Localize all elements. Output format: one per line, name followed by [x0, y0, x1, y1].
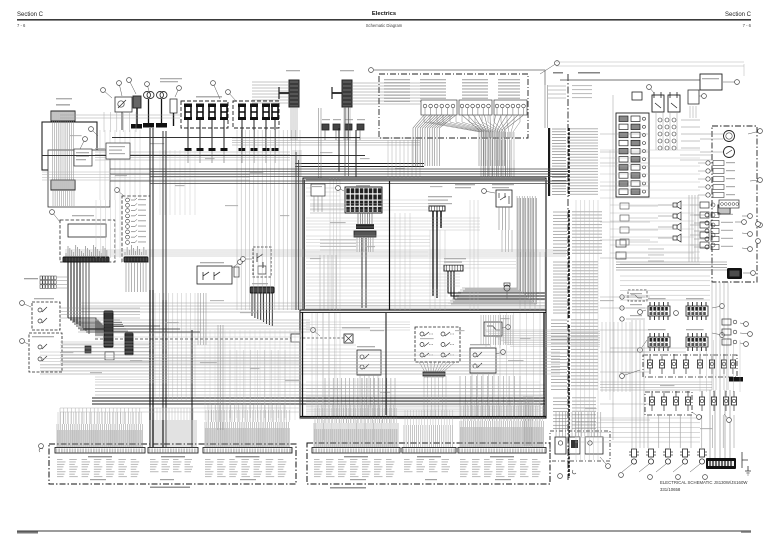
callout balloon RB3 — [699, 95, 704, 97]
callout RGx2 — [740, 333, 750, 334]
small components right mid — [616, 240, 626, 247]
callout balloon aux switch — [496, 352, 503, 354]
extra texture left mid column — [96, 200, 120, 258]
key code switch label — [444, 258, 466, 259]
callout balloon 8 — [228, 92, 236, 101]
thick feed bundle bottom — [92, 398, 545, 404]
tow socket box console top-left — [311, 184, 325, 196]
fuse FB2 row 2 — [619, 124, 628, 130]
hour meter gauge — [724, 131, 735, 142]
wires from horn comb down — [252, 293, 272, 326]
top right link wires — [556, 62, 744, 66]
callout balloon legend — [540, 63, 557, 74]
leader line PT2 — [639, 464, 649, 472]
fuse matrix drop dark pair — [362, 238, 366, 308]
staircase comb 2 — [125, 333, 133, 355]
wire fuse FL7 down — [265, 120, 267, 148]
right column vertical band — [689, 195, 698, 262]
tick fringe extension harness1 — [58, 412, 141, 424]
wires into lamp cluster — [556, 412, 601, 437]
pill connector on dashed link — [291, 334, 300, 342]
solenoid valve SV1 — [649, 354, 651, 360]
flasher unit box — [74, 149, 92, 166]
instrument housing box — [48, 150, 110, 207]
horn speaker H4 — [677, 234, 681, 242]
harness box 2 sublabels — [350, 479, 366, 480]
isolator switch X — [344, 334, 353, 343]
solenoid valve SW5 — [701, 391, 703, 397]
pill connector row right — [719, 200, 739, 208]
right column fill rows y250-266 — [620, 251, 700, 253]
junction box top right — [700, 74, 722, 90]
leader line PT1 — [622, 464, 632, 472]
lamp cluster dashed box — [550, 431, 610, 461]
wire fan from switch groups — [424, 115, 480, 132]
svg-text:Electrics: Electrics — [372, 11, 396, 17]
label column bus segments — [568, 128, 570, 478]
fuse FB2 row 3 — [619, 132, 628, 138]
key code switch comb — [444, 265, 463, 271]
wire fuse FL2 down — [199, 120, 201, 148]
relay group RG4 — [686, 337, 708, 347]
horn speaker H2 — [677, 212, 681, 220]
vertical bundle right x712-728 — [712, 282, 728, 390]
fuse link FL3 — [208, 104, 216, 108]
isolator black drop extension — [433, 228, 437, 298]
verticals along divider gap — [576, 200, 598, 460]
indicator lamp L2 — [706, 169, 710, 173]
membrane interior verticals — [312, 313, 340, 418]
sender unit S2 — [700, 212, 709, 218]
legend fan bundle B — [462, 115, 524, 166]
solenoid valve SW1 — [651, 391, 653, 397]
relay module dashed — [253, 247, 271, 277]
harness box 2 caption — [330, 487, 366, 489]
callout balloon top run — [369, 68, 374, 73]
horn connector comb — [252, 283, 268, 284]
aux changeover switch box — [470, 348, 496, 373]
gauge lamp G5 — [126, 219, 130, 223]
tick bundle above CS1 — [57, 424, 143, 447]
wire fuse FL3 down — [211, 120, 213, 148]
pressure transducer PT2 — [646, 452, 656, 455]
gray texture left of console — [205, 330, 300, 420]
wires into junction block — [57, 277, 68, 288]
wire bundle alt drop — [502, 230, 512, 252]
bulkhead connector C31 — [340, 70, 354, 71]
callout balloon 7 — [213, 83, 220, 99]
right rows horizontals y150-200 — [600, 149, 700, 151]
horn speaker H3 — [677, 223, 681, 231]
membrane interior verticals sparse — [316, 313, 336, 416]
wire drop x545 top — [544, 70, 546, 128]
callout RGx1 — [740, 323, 746, 324]
wire bundles mid height dense — [60, 355, 300, 363]
sender unit S5 — [700, 242, 709, 248]
wire bundle below housing — [53, 190, 74, 206]
buzzer — [504, 285, 510, 291]
dark band above console — [110, 168, 568, 170]
harness box 1 wire list — [57, 458, 63, 461]
stub bar C30 — [279, 92, 289, 94]
solenoid valve SV7 — [723, 354, 725, 360]
component rows x625 — [620, 295, 624, 299]
wire bundle gauge drop — [126, 262, 146, 292]
svg-text:ELECTRICAL SCHEMATIC JS130W/JS: ELECTRICAL SCHEMATIC JS130W/JS160W — [660, 480, 748, 485]
svg-text:Section C: Section C — [725, 12, 752, 18]
callout balloon harness1 — [39, 448, 43, 452]
right rows horizontals y200-260 long — [610, 204, 694, 206]
wire fuse FL4 down — [223, 120, 225, 148]
membrane bottom gather — [306, 396, 544, 414]
leader line PT4 — [673, 464, 683, 472]
callout right edge E — [742, 248, 750, 249]
wire verticals from fuse panel region — [237, 130, 300, 310]
wire label rows lower — [551, 319, 567, 321]
long wires label column to right components — [600, 133, 650, 135]
worklamp switch dashed box — [32, 302, 60, 330]
tick bundle above CS6 — [460, 421, 544, 447]
lamp pill L3 — [585, 437, 603, 454]
right column relay drops — [656, 112, 677, 150]
bulkhead connector C30 — [286, 70, 300, 71]
wire bundle C30 down — [291, 107, 297, 140]
fuse FB2 row 7 — [619, 165, 628, 171]
stub bar C31 — [332, 92, 342, 94]
vertical bundle x218 — [218, 325, 223, 430]
leader line PT5 — [690, 464, 700, 472]
callout balloon RG3 — [640, 340, 647, 350]
console interior wire texture — [310, 200, 430, 210]
component RB3 — [688, 90, 699, 104]
alternator relay pins down — [499, 207, 509, 230]
staircase comb 1 — [104, 311, 113, 347]
gray wide bus at x525 — [524, 396, 532, 446]
legend fan extension — [482, 132, 513, 138]
indicator lamp L3 — [706, 177, 710, 181]
harness box 1 sublabels — [90, 479, 106, 480]
gauge lamp G2 — [126, 203, 130, 207]
key code switch bundle — [448, 271, 545, 299]
cab mainframe split line — [567, 74, 569, 480]
wires from pin grid — [681, 120, 700, 148]
tow switch drops — [360, 375, 378, 416]
wire top run — [374, 70, 545, 85]
membrane panel label — [342, 327, 370, 328]
switch matrix dashed box — [415, 327, 460, 362]
callout balloon lamp cluster 2 — [558, 474, 563, 479]
callout balloon relay module — [243, 258, 252, 260]
tick fringe extension harness2 — [315, 408, 397, 423]
right column verticals above terminal — [700, 340, 740, 392]
footer issue number — [741, 531, 751, 533]
thick feed wires top-center — [295, 163, 424, 165]
fuse link FL2 — [196, 104, 204, 108]
alternator relay box — [496, 190, 512, 207]
gauge lamp G9 — [126, 241, 130, 245]
fuse FB2 row 8 — [619, 173, 628, 179]
diode pack D2 — [333, 124, 340, 130]
gauge lamp G1 — [126, 198, 130, 202]
relay group RG1 — [648, 306, 670, 316]
fuse FB2 row 6 — [619, 157, 628, 163]
top-left risers to bus — [104, 112, 136, 132]
membrane panel box — [300, 310, 546, 418]
left bundle turn right heavy — [80, 326, 200, 332]
callout balloon RB — [649, 87, 654, 93]
staircase fan 2 — [113, 320, 128, 331]
gauge lamp G8 — [126, 235, 130, 239]
capacitor component — [234, 267, 239, 277]
diode pack D4 — [357, 124, 364, 130]
tick bundle above CS5 — [404, 425, 452, 447]
label fuse panel — [196, 96, 222, 98]
valve block VB1 dash-dot box — [643, 355, 737, 377]
callout balloon PT row 4 — [703, 475, 708, 480]
right column horizontals y262-300 — [620, 276, 710, 300]
long bus left-center B — [40, 352, 560, 374]
security relay box — [197, 266, 232, 284]
fan connector under matrix — [419, 362, 455, 378]
gray verticals legend bundle lower — [481, 315, 513, 345]
vertical bundle right x602-630 — [602, 322, 630, 392]
console box — [303, 178, 546, 310]
tick risers tall CS1 — [60, 408, 140, 424]
label MAINFRAME — [578, 72, 600, 74]
indicator lamp L4 — [706, 185, 710, 189]
thermostat label — [455, 184, 475, 185]
nested corner bundle darker — [451, 198, 536, 304]
callout valve right1 — [692, 412, 699, 417]
solenoid valve SW6 — [713, 391, 715, 397]
header rule — [17, 19, 751, 21]
callout balloon 2 — [103, 90, 112, 98]
label above connector C20 — [56, 98, 72, 99]
callout balloon RG4 — [712, 333, 722, 335]
dark component left — [85, 346, 91, 353]
switch group SG2 — [459, 100, 492, 115]
bulb holder B2 — [157, 92, 164, 99]
terminal strip black block — [706, 458, 736, 469]
wire fuse FL8 down — [274, 120, 276, 148]
matrix connector drops — [424, 376, 446, 416]
alternator relay label — [492, 184, 514, 185]
monitor module dashed box — [60, 220, 115, 262]
black mini terminal — [729, 377, 743, 382]
wire fuse FL5 down — [241, 120, 243, 148]
diode pack right dashed — [628, 290, 647, 301]
solenoid valve SV8 — [732, 354, 734, 360]
tow lamp switch box — [357, 350, 381, 375]
callout valve left — [622, 370, 640, 376]
black vertical x339 — [338, 128, 340, 172]
gauge lamp G7 — [126, 230, 130, 234]
callout right edge A — [742, 215, 750, 217]
membrane interior extra wires — [306, 382, 540, 392]
pin grid connector — [658, 118, 662, 122]
fuse board FB2 outline — [616, 113, 649, 197]
bundle hugging console left edge — [293, 150, 301, 310]
tow socket pins — [314, 196, 322, 212]
legend bundle turn right — [483, 330, 600, 346]
label column bus bar — [548, 128, 550, 196]
harness box 2 wire list — [314, 458, 320, 461]
long cross wires upper mid — [60, 115, 180, 118]
wire bundle C20 down — [53, 121, 74, 180]
callout balloon key matrix — [338, 188, 344, 191]
harness box 1 dash-dot border — [49, 444, 296, 484]
connector strip CS3 — [203, 448, 292, 454]
solenoid valve SW8 — [733, 391, 735, 397]
console inner wires — [310, 205, 345, 213]
callout balloon 4 — [129, 80, 136, 94]
wires fuse matrix down — [358, 213, 372, 224]
callout balloon dark relay — [743, 272, 753, 274]
vertical bundle x192 — [191, 330, 193, 447]
black riser pair x163 full height — [163, 131, 166, 300]
callout right edge C — [742, 233, 750, 234]
fuse panel FP1 dashed box — [181, 101, 228, 128]
right column boundary vertical — [612, 95, 614, 440]
membrane center black drop — [385, 313, 387, 415]
black riser pair x150 full height — [150, 128, 153, 290]
mini component column right-mid — [722, 319, 731, 325]
connector C31 fill dark — [343, 81, 352, 107]
callout G mid — [674, 311, 679, 316]
callout balloon worklamp — [22, 303, 31, 307]
membrane switch row2 col1 — [420, 343, 424, 347]
wires from switch boxes — [60, 308, 140, 318]
aux switch drops — [472, 372, 494, 416]
callout balloon trailer relay — [502, 327, 508, 328]
svg-text:Schematic Diagram: Schematic Diagram — [366, 23, 403, 28]
legend drop emphasis — [484, 140, 510, 176]
monitor connector bar — [63, 257, 109, 262]
callout balloon RG1 — [640, 310, 646, 312]
connector strip CS5 — [402, 448, 456, 454]
membrane switch row1 col1 — [420, 332, 424, 336]
callout balloon alternator relay — [484, 191, 495, 193]
indicator lamp L5 — [706, 193, 710, 197]
solenoid valve SV2 — [661, 354, 663, 360]
solenoid valve SW7 — [725, 391, 727, 397]
console hugging dark pair — [296, 152, 299, 310]
wire bundle into terminal strip — [710, 390, 730, 458]
callout balloon 5 — [147, 84, 149, 91]
solenoid valve SW2 — [663, 391, 665, 397]
horizontal links right lower — [600, 382, 712, 390]
gauge lamp G6 — [126, 225, 130, 229]
hatched sensor block — [718, 205, 730, 214]
switch group SG1 — [421, 100, 457, 115]
wire relay R1 down — [121, 112, 123, 130]
monitor label — [72, 215, 94, 216]
wire fuse FL6 down — [253, 120, 255, 148]
callout balloon monitor — [52, 212, 60, 222]
dark drop bundle left — [83, 262, 89, 334]
connector strip CS6 — [458, 448, 546, 454]
wire bundle C31 down — [344, 107, 350, 140]
bottom-left long runs extra — [60, 342, 300, 348]
gauge module dashed box — [122, 196, 150, 262]
fuse FB2 row 9 — [619, 181, 628, 187]
tick bundle above CS2 — [150, 420, 196, 447]
right column horizontals low — [575, 418, 700, 442]
vertical bundle right of key drop — [520, 252, 545, 310]
membrane switch row2 col2 — [441, 343, 445, 347]
tick risers tall CS4 — [318, 404, 394, 423]
callout balloon 6 — [175, 88, 179, 97]
wire bundle monitor drop — [68, 262, 80, 326]
wire label rows mid — [553, 211, 567, 213]
legend fan bundle A — [413, 115, 456, 166]
tick densify harness1 — [58, 430, 142, 447]
key switch matrix label — [356, 185, 370, 186]
membrane switch row3 col2 — [441, 353, 445, 357]
connector C30 fill dark — [290, 81, 299, 107]
wire top right run — [560, 79, 700, 81]
pressure transducer PT4 — [680, 452, 690, 455]
callout balloon PT row 2 — [648, 475, 653, 480]
valve block VB2 dash-dot box — [645, 392, 692, 415]
callout balloon right1 — [758, 223, 763, 228]
gauge connector bar — [124, 257, 148, 262]
wire fan into C30 — [252, 81, 289, 83]
voltmeter gauge — [724, 147, 735, 158]
trailer relay drops — [486, 336, 500, 348]
wires to gauges — [700, 133, 723, 135]
callout balloon x91 — [91, 129, 98, 136]
wire bundle C31 right — [352, 82, 420, 84]
callout balloon gauges — [748, 131, 760, 134]
tick bundle above CS4 — [314, 423, 398, 447]
dashed link wire — [290, 337, 344, 339]
wire rows near divider top — [548, 85, 566, 87]
solenoid valve SW3 — [675, 391, 677, 397]
svg-text:7 - 6: 7 - 6 — [743, 23, 752, 28]
relay R1 box — [115, 97, 132, 112]
console interior extra wires — [306, 236, 430, 246]
callout balloon top right — [723, 81, 737, 83]
diode pack D1 — [322, 124, 329, 130]
fuse FB2 row 5 — [619, 148, 628, 154]
horizontal bus top-center — [232, 138, 420, 145]
svg-text:Section C: Section C — [17, 12, 44, 18]
bulb holder B1 — [144, 92, 151, 99]
wire field below top-left components — [95, 152, 290, 160]
wire label rows lower-mid — [553, 261, 567, 263]
wire label rows dense upper — [552, 128, 566, 130]
solenoid valve SV6 — [711, 354, 713, 360]
membrane interior horizontals — [306, 322, 410, 330]
dashed wire run left — [95, 338, 290, 340]
wire bundle valves down — [648, 415, 734, 448]
callout balloon membrane — [313, 330, 320, 336]
staircase fan 1 — [68, 318, 108, 336]
fuse FB2 row 10 — [619, 189, 628, 195]
monitor display window — [68, 224, 106, 237]
callout balloon RG2 — [712, 306, 722, 308]
monitor bar chart ticks — [66, 245, 107, 256]
indicator lamp L1 — [706, 161, 710, 165]
tick bundle above CS3 — [205, 422, 289, 447]
relay group RG3 — [648, 337, 670, 347]
callout balloon PT row 1 — [619, 473, 624, 478]
wire verticals top-left into field — [100, 130, 140, 200]
right column horizontals upper — [680, 155, 712, 160]
bracket symbol — [742, 452, 748, 468]
pressure transducer PT5 — [697, 452, 707, 455]
